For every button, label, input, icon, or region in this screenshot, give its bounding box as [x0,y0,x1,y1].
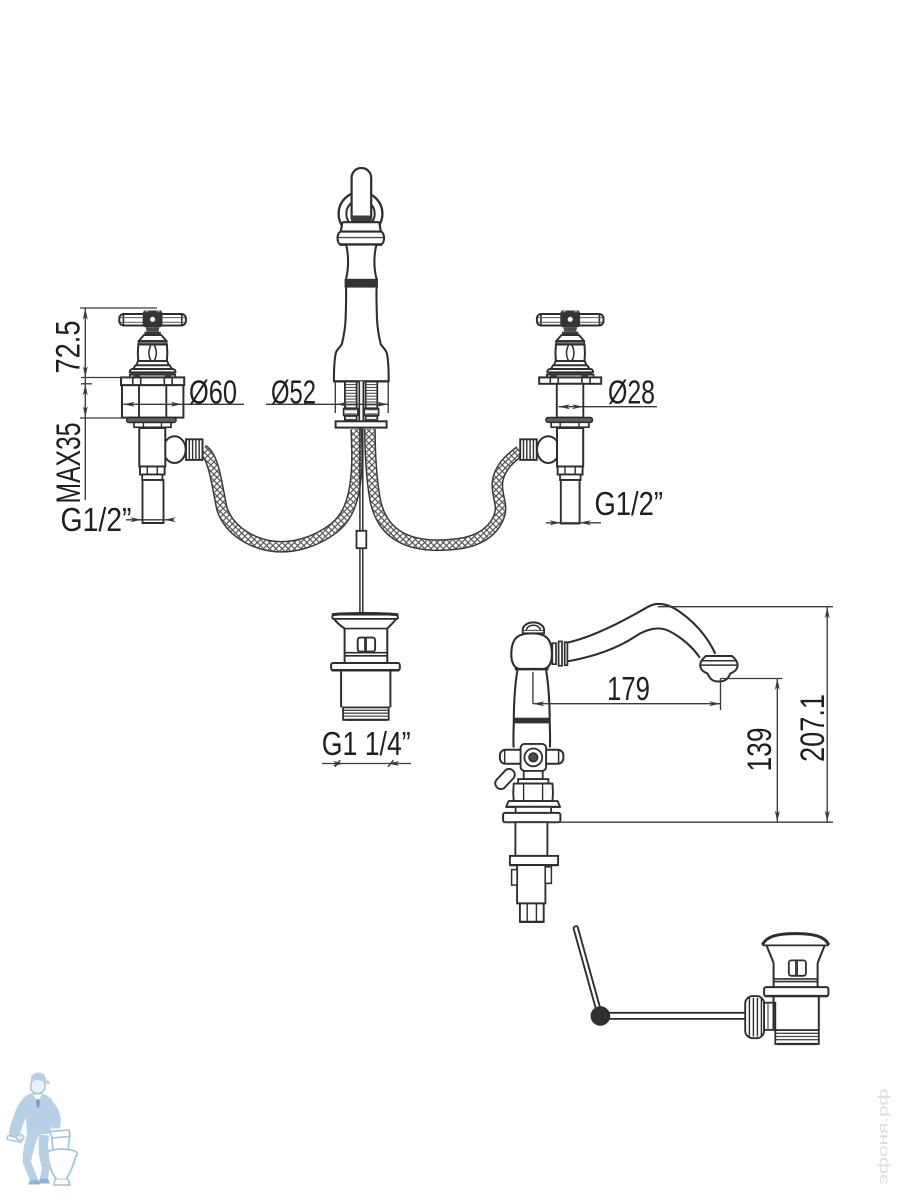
svg-text:139: 139 [741,728,779,772]
svg-text:207.1: 207.1 [794,694,832,762]
svg-text:Ø28: Ø28 [608,374,655,411]
svg-text:G1/2”: G1/2” [61,502,132,539]
svg-text:179: 179 [607,671,650,708]
svg-text:Ø60: Ø60 [189,374,237,411]
svg-text:Ø52: Ø52 [271,374,316,411]
svg-text:эфоня.рф: эфоня.рф [875,1089,891,1185]
svg-text:72.5: 72.5 [50,321,88,374]
svg-text:G1/2”: G1/2” [595,486,664,523]
svg-text:G1 1/4”: G1 1/4” [322,726,411,763]
svg-text:MAX35: MAX35 [50,423,88,504]
